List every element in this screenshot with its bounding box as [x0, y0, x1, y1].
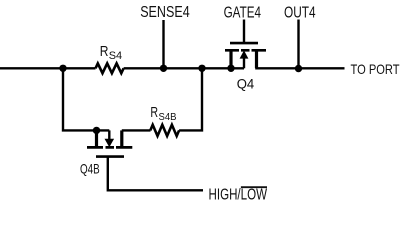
transistor Q4B drain bar — [120, 130, 123, 147]
svg-text:R: R — [150, 105, 158, 121]
svg-text:HIGH/LOW: HIGH/LOW — [209, 187, 268, 203]
junction dot OUT4 — [295, 65, 302, 72]
wire lower rail from Q4B drain to RS4B — [122, 129, 151, 131]
junction dot SENSE4 — [160, 65, 167, 72]
transistor Q4 channel segments — [225, 49, 266, 52]
wire SENSE4 stub — [162, 20, 164, 68]
transistor Q4 body arrow head — [240, 50, 249, 58]
transistor Q4B channel segments — [87, 146, 132, 149]
transistor Q4 drain bar — [255, 50, 258, 68]
net label HIGH/LOW overline — [241, 186, 267, 188]
transistor Q4 gate lead — [243, 20, 245, 44]
wire lower rail right segment up to main rail — [179, 68, 202, 130]
junction dot RS4B branch — [198, 65, 205, 72]
junction dot Q4 source — [227, 65, 234, 72]
wire main rail left segment — [0, 67, 96, 69]
resistor RS4B — [150, 125, 179, 136]
svg-text:S4B: S4B — [159, 111, 177, 123]
svg-text:R: R — [100, 44, 109, 60]
transistor Q4B gate plate — [96, 155, 124, 158]
transistor Q4B body arrow stem — [108, 130, 110, 139]
svg-text:SENSE4: SENSE4 — [140, 4, 190, 21]
wire main rail right segment to TO PORT — [255, 67, 344, 69]
svg-text:S4: S4 — [109, 50, 122, 62]
resistor RS4 — [96, 63, 124, 73]
transistor Q4 body arrow stem — [243, 58, 245, 69]
junction dot left branch — [59, 65, 66, 72]
svg-text:Q4: Q4 — [237, 76, 255, 92]
svg-text:TO PORT: TO PORT — [351, 61, 400, 77]
wire OUT4 stub — [297, 20, 299, 69]
svg-text:Q4B: Q4B — [80, 161, 100, 177]
transistor Q4B source bar — [95, 130, 98, 147]
wire main rail middle segment — [124, 67, 244, 69]
wire Q4B gate lead down and bottom rail to HIGH/LOW — [108, 157, 203, 191]
wire left branch down to lower rail — [63, 68, 109, 130]
transistor Q4B body arrow head — [105, 139, 115, 147]
junction dot Q4B source — [93, 127, 100, 134]
svg-text:GATE4: GATE4 — [224, 4, 261, 21]
transistor Q4 source bar — [229, 50, 232, 68]
svg-text:OUT4: OUT4 — [284, 4, 316, 21]
transistor Q4 gate plate — [230, 42, 258, 45]
